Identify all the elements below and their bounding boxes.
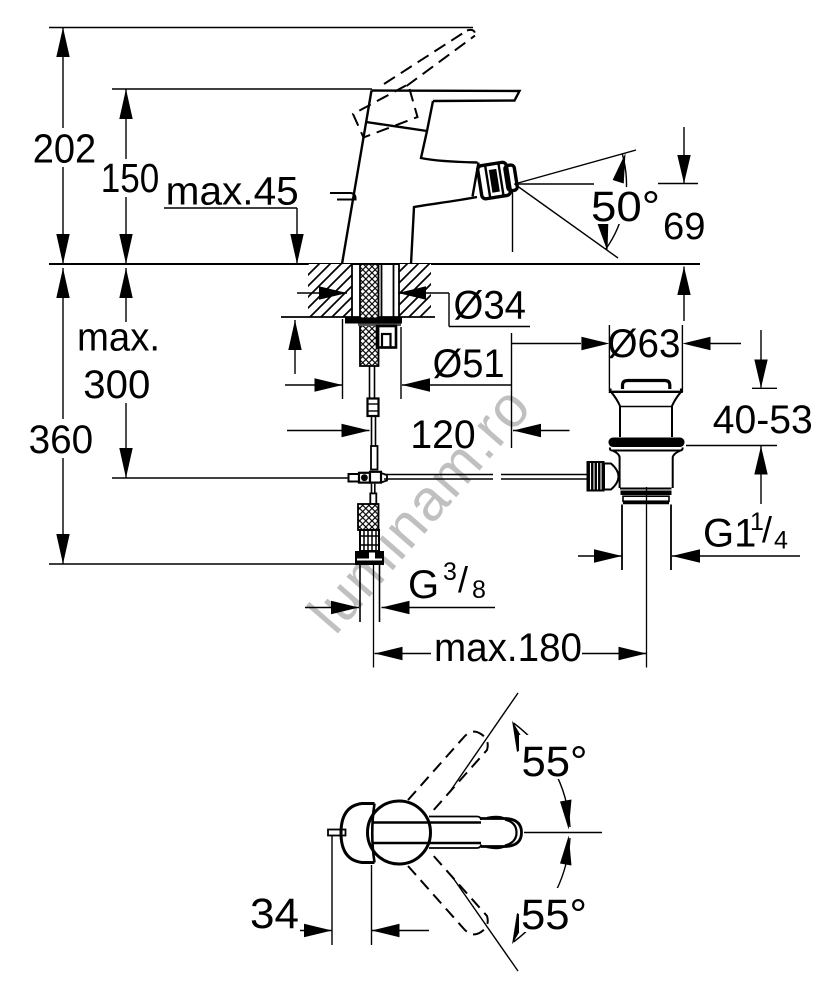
top view head circle <box>368 801 431 864</box>
svg-text:Ø51: Ø51 <box>433 342 505 386</box>
svg-text:/: / <box>458 559 468 600</box>
deck hatch left block <box>308 264 352 317</box>
top reference line (202 level) <box>49 27 473 29</box>
dimension 69 <box>658 127 698 321</box>
aerator spray outlet <box>477 161 518 200</box>
dimension D51 <box>285 319 511 399</box>
handle raised dashed position <box>353 30 475 138</box>
rod tee junction <box>349 472 388 504</box>
top view body cap <box>341 804 375 863</box>
svg-text:202: 202 <box>33 125 96 171</box>
max300 reference / pop-up rod line <box>112 477 362 479</box>
svg-text:Ø63: Ø63 <box>608 322 681 366</box>
svg-text:40-53: 40-53 <box>713 398 813 442</box>
hose knurled collar <box>360 530 379 551</box>
svg-text:55°: 55° <box>522 738 588 786</box>
55 deg upper arc <box>514 723 571 827</box>
top view handle tip <box>481 817 522 848</box>
svg-text:69: 69 <box>663 206 706 248</box>
svg-text:G1: G1 <box>703 512 756 556</box>
rubber seal ring <box>609 438 685 448</box>
svg-text:max.: max. <box>77 316 160 360</box>
dimension max.300 <box>119 268 132 478</box>
hose hex nut G3/8 <box>355 551 384 565</box>
dimension max.180 <box>375 647 647 660</box>
svg-text:Ø34: Ø34 <box>454 284 527 328</box>
G3/8 pipe <box>360 565 380 668</box>
svg-text:max.180: max.180 <box>434 626 582 670</box>
50 deg arc arrowheads <box>612 152 628 184</box>
svg-text:34: 34 <box>250 890 299 938</box>
50 deg label <box>588 187 664 224</box>
countertop line <box>49 263 700 265</box>
svg-text:4: 4 <box>774 527 788 555</box>
overflow tab <box>330 193 356 200</box>
dimension 34 <box>300 836 429 945</box>
dimension 120 <box>287 333 570 448</box>
top view handle dashed down position <box>408 853 488 934</box>
pop-up waste flange <box>610 389 682 438</box>
55 deg lower label <box>519 888 593 932</box>
svg-text:120: 120 <box>410 413 475 457</box>
svg-text:G: G <box>408 563 439 607</box>
svg-text:300: 300 <box>83 363 150 407</box>
dimension 202 <box>56 28 69 265</box>
svg-text:360: 360 <box>29 418 94 462</box>
mounting nut <box>377 326 396 348</box>
drain side knob knurled <box>587 461 605 492</box>
svg-text:150: 150 <box>101 155 160 201</box>
washer under deck <box>345 318 402 324</box>
svg-text:8: 8 <box>472 576 486 604</box>
drain knob arm <box>604 464 619 490</box>
dimension 40-53 <box>686 330 777 504</box>
pull rod upper <box>368 366 379 470</box>
top view temperature pin <box>328 830 346 836</box>
svg-text:/: / <box>762 509 772 550</box>
dimension 150 <box>119 89 132 264</box>
svg-text:55°: 55° <box>521 891 587 939</box>
dimension D63 <box>512 325 742 392</box>
55 deg radial lines <box>451 693 602 971</box>
mounting hole edges <box>352 264 399 326</box>
deck hatch right block <box>281 264 435 317</box>
top view lever shaft lines <box>372 817 482 849</box>
braided hose through deck <box>360 264 379 366</box>
faucet body outline <box>342 91 520 265</box>
svg-text:50°: 50° <box>591 183 660 231</box>
waste body bell <box>610 448 683 489</box>
dimension D34 <box>297 286 530 326</box>
bottom reference line (360 level) <box>49 563 356 565</box>
svg-text:max.45: max.45 <box>166 170 299 214</box>
dimension G3/8 <box>305 601 495 614</box>
dimension G1 1/4 <box>578 549 800 562</box>
top view handle dashed up position <box>408 732 488 813</box>
55 deg upper label <box>519 735 593 779</box>
dimension max.45 <box>164 208 304 374</box>
angle 50 deg fan <box>513 150 637 258</box>
horizontal pop-up rod to drain <box>384 475 587 480</box>
55 deg lower arc <box>514 838 571 942</box>
shank tube <box>381 264 383 326</box>
svg-text:3: 3 <box>443 558 457 586</box>
waste union rings <box>621 493 672 503</box>
waste tailpipe G1 1/4 <box>622 487 671 668</box>
braided hose lower <box>358 504 379 530</box>
dimension 360 <box>56 268 69 564</box>
lever reference line (150 level) <box>112 88 372 90</box>
pop-up waste pushbutton <box>623 381 670 390</box>
